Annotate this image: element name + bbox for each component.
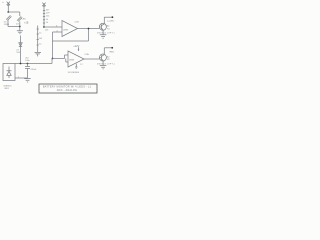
- output junction: [88, 28, 90, 30]
- Q1 emitter wire: [102, 30, 104, 35]
- diode D2: [17, 16, 22, 21]
- feedback drop wire: [88, 29, 90, 42]
- tick: [43, 10, 45, 12]
- wire: [8, 26, 20, 28]
- wire to op-amp + input: [44, 26, 62, 28]
- supply rail wire: [15, 63, 52, 65]
- wire: [7, 6, 9, 12]
- svg-text:A1: A1: [107, 25, 110, 28]
- wire: [8, 11, 19, 13]
- op-amp U1B triangle: [68, 51, 84, 67]
- node A junction: [7, 11, 9, 13]
- op-amp U1A triangle: [62, 21, 78, 37]
- svg-text:LM39: LM39: [63, 29, 69, 31]
- potentiometer R1: [7, 2, 10, 6]
- svg-text:+: +: [2, 1, 4, 4]
- diode inside BR1: [7, 67, 12, 79]
- svg-text:LED: LED: [22, 19, 27, 21]
- bridge rectifier BR1 box: [3, 64, 15, 81]
- title box: [39, 84, 97, 93]
- svg-text:1k: 1k: [39, 32, 42, 34]
- Q2 collector wire: [103, 48, 105, 55]
- svg-text:1N34: 1N34: [4, 24, 10, 26]
- tick: [37, 28, 39, 30]
- svg-text:21P: 21P: [46, 12, 50, 14]
- LED wire: [104, 16, 112, 18]
- svg-text:BR1: BR1: [5, 88, 10, 90]
- power arrow: [78, 47, 80, 51]
- capacitor C1: [25, 67, 30, 69]
- junction: [20, 63, 22, 65]
- resistor column R3: [37, 26, 39, 53]
- svg-text:C1B: C1B: [74, 21, 79, 23]
- svg-text:2N3904 (OPT.): 2N3904 (OPT.): [97, 33, 115, 35]
- svg-text:2k2: 2k2: [39, 38, 43, 40]
- wire: [19, 27, 21, 31]
- svg-text:R1: R1: [107, 28, 110, 30]
- output wire: [78, 28, 100, 30]
- svg-text:1k: 1k: [46, 19, 49, 21]
- ground: [100, 35, 107, 38]
- wire: [19, 21, 21, 26]
- tick: [43, 13, 45, 15]
- svg-text:A2: A2: [107, 55, 110, 58]
- svg-text:12k: 12k: [45, 30, 49, 32]
- non-inverting input wire: [65, 54, 69, 56]
- rail jog wire: [51, 59, 53, 64]
- wire: [19, 12, 21, 16]
- tick: [43, 22, 45, 24]
- junction: [52, 58, 54, 60]
- svg-text:100n: 100n: [25, 60, 30, 62]
- LED node: [112, 16, 114, 18]
- zener Z1 column wire: [20, 36, 22, 64]
- wire: [64, 55, 66, 59]
- svg-text:2N3904 (OPT.): 2N3904 (OPT.): [97, 63, 115, 65]
- potentiometer R2: [42, 3, 45, 7]
- svg-text:1k: 1k: [46, 22, 49, 24]
- svg-text:C1A: C1A: [84, 53, 89, 56]
- feedback vertical wire: [52, 32, 54, 59]
- diode D1: [6, 15, 11, 20]
- svg-text:+1B: +1B: [24, 22, 29, 25]
- op-amp2 output wire: [84, 58, 99, 60]
- resistor ladder: [43, 7, 45, 27]
- tick: [37, 44, 39, 46]
- ground: [100, 66, 107, 69]
- ground pin glyph: [75, 64, 77, 69]
- svg-text:470uF: 470uF: [31, 69, 38, 71]
- wire: [53, 58, 65, 60]
- svg-text:LM39: LM39: [69, 60, 75, 62]
- zener Z1: [19, 43, 22, 47]
- tick: [37, 33, 39, 35]
- LED wire: [104, 47, 112, 49]
- svg-text:4k7: 4k7: [46, 9, 50, 11]
- Q2 emitter wire: [102, 61, 104, 66]
- svg-text:R2: R2: [107, 59, 110, 61]
- LED node: [111, 47, 113, 49]
- svg-text:1k: 1k: [39, 43, 42, 45]
- op-amp inverting input wire: [53, 31, 63, 33]
- capacitor C1 bottom lead: [27, 69, 29, 79]
- transistor Q2: [99, 54, 106, 61]
- capacitor C1 top lead: [27, 64, 29, 67]
- ground: [17, 31, 23, 34]
- wire: [7, 20, 9, 27]
- svg-text:12: 12: [80, 64, 83, 66]
- tick: [37, 39, 39, 41]
- ground: [24, 79, 31, 82]
- tick: [43, 16, 45, 18]
- svg-text:(+)LED: (+)LED: [107, 21, 114, 23]
- chassis arrow: [35, 52, 42, 56]
- transistor Q1: [99, 23, 106, 30]
- inverting input stub: [66, 59, 68, 63]
- junction: [19, 26, 21, 28]
- svg-text:RED: RED: [110, 52, 115, 54]
- feedback horizontal wire: [53, 40, 89, 42]
- svg-text:ADC - ANALOG: ADC - ANALOG: [57, 89, 77, 92]
- junction tap: [43, 26, 45, 28]
- wire from box: [15, 77, 28, 79]
- junction: [27, 63, 29, 65]
- Q1 collector wire: [103, 17, 105, 24]
- svg-text:1/4 LM3900: 1/4 LM3900: [68, 72, 80, 74]
- svg-text:21k: 21k: [46, 15, 50, 17]
- tick: [43, 19, 45, 21]
- svg-text:D2: D2: [16, 23, 20, 25]
